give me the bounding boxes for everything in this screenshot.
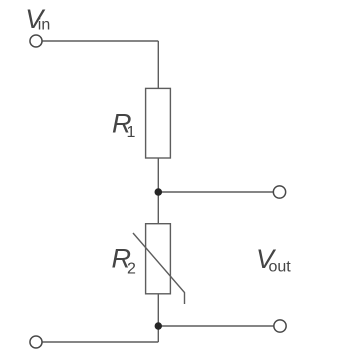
svg-text:1: 1 [127, 124, 136, 141]
wire junction B to Vout lower terminal [158, 325, 273, 327]
wire Vin to top node [43, 40, 159, 42]
wire top node down to R1 [157, 41, 159, 88]
label R1 [112, 109, 136, 142]
wire junction B down to bottom rail [157, 326, 159, 342]
svg-text:out: out [269, 259, 292, 276]
terminal bottom-left [30, 336, 42, 348]
wire junction A to R2 [157, 192, 159, 224]
node A junction dot [155, 188, 163, 196]
node B junction dot [155, 322, 162, 329]
wire R2 to junction B [157, 294, 159, 326]
wire junction A to Vout upper terminal [158, 191, 273, 193]
terminal Vout lower [274, 320, 286, 332]
svg-text:in: in [38, 16, 50, 33]
svg-text:2: 2 [127, 261, 136, 278]
wire R1 to junction A [157, 158, 159, 192]
label Vout [256, 244, 291, 276]
label R2 [112, 244, 137, 278]
resistor R2 (variable) body [146, 224, 171, 294]
terminal Vin [30, 35, 42, 47]
terminal Vout upper [273, 186, 285, 198]
wire bottom rail to left terminal [42, 341, 158, 343]
label Vin [25, 4, 50, 34]
resistor R1 [146, 88, 171, 158]
resistor R2 variable-arrow diagonal [133, 233, 185, 304]
